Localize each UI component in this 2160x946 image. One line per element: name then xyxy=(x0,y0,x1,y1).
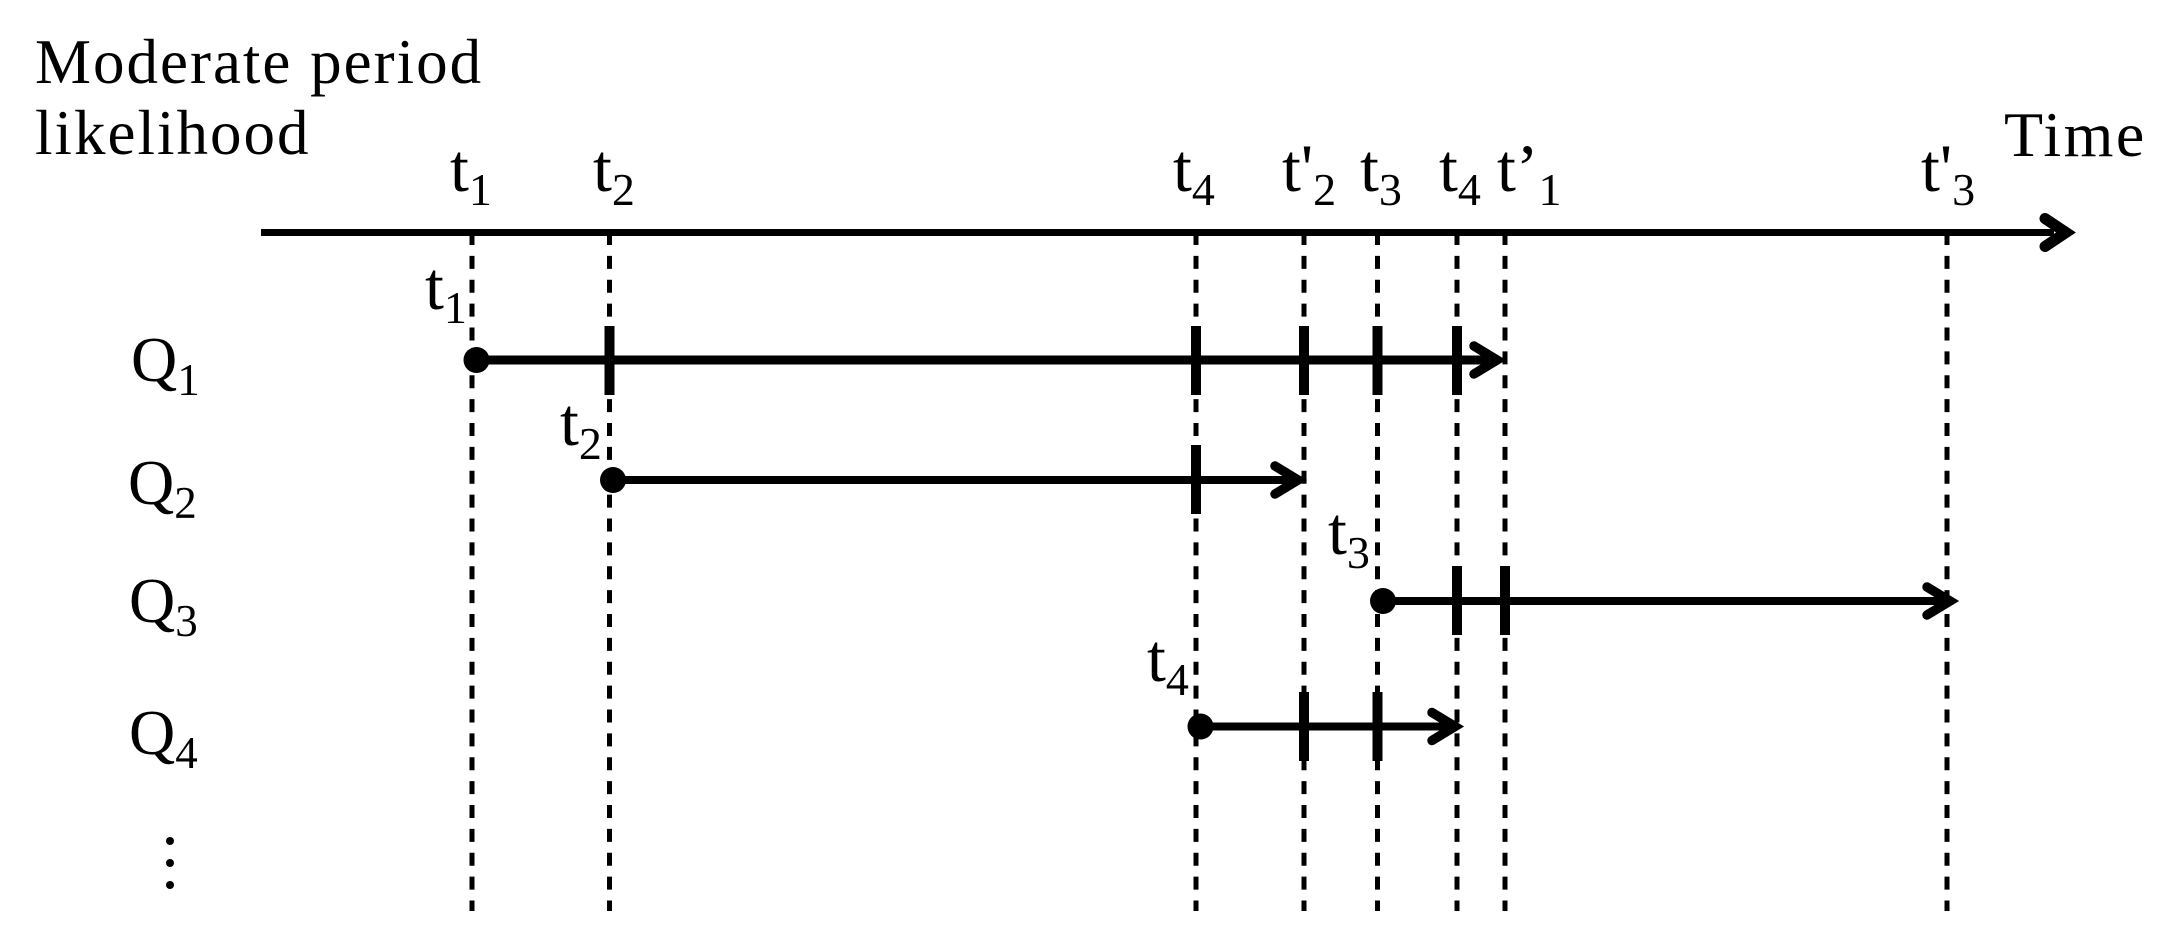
dashed line t'3 xyxy=(1945,232,1950,911)
Q3 arrowhead xyxy=(1927,587,1950,615)
Q4 arrowhead xyxy=(1432,713,1455,741)
Q4 start dot xyxy=(1188,714,1214,740)
dashed line t'2 xyxy=(1302,232,1307,911)
dashed line t3 xyxy=(1375,232,1380,911)
dashed line t'1 xyxy=(1503,232,1508,911)
svg-text:Time: Time xyxy=(2004,99,2147,170)
Q1 tick t4b xyxy=(1452,326,1462,395)
Q1 tick t3 xyxy=(1373,326,1383,395)
Q3 tick t4b xyxy=(1452,566,1462,635)
Q1 tick t2 xyxy=(605,326,615,395)
Q4 tick t'2 xyxy=(1299,692,1309,761)
Q1 start dot xyxy=(464,347,490,373)
dashed line t4b xyxy=(1455,232,1460,911)
Q3 start dot xyxy=(1370,588,1396,614)
Q3 tick t'1 xyxy=(1500,566,1510,635)
dashed line t2 xyxy=(607,232,612,911)
Q1 tick t4 xyxy=(1191,326,1201,395)
svg-text:Moderate period: Moderate period xyxy=(35,27,483,97)
dashed line t1 xyxy=(470,232,475,911)
svg-text:likelihood: likelihood xyxy=(35,98,310,168)
Q2 tick t4 xyxy=(1191,445,1201,514)
Q2 timeline xyxy=(613,476,1298,484)
time axis arrowhead xyxy=(2045,219,2066,247)
vertical ellipsis xyxy=(166,837,174,845)
Q2 start dot xyxy=(600,467,626,493)
Q4 tick t3 xyxy=(1373,692,1383,761)
time axis xyxy=(261,229,2054,236)
Q1 arrowhead xyxy=(1474,346,1497,374)
Q1 tick t'2 xyxy=(1299,326,1309,395)
Q3 timeline xyxy=(1383,597,1950,605)
Q4 timeline xyxy=(1200,723,1455,731)
Q1 timeline xyxy=(476,356,1497,365)
dashed line t4 xyxy=(1194,232,1199,911)
Q2 arrowhead xyxy=(1275,466,1298,494)
